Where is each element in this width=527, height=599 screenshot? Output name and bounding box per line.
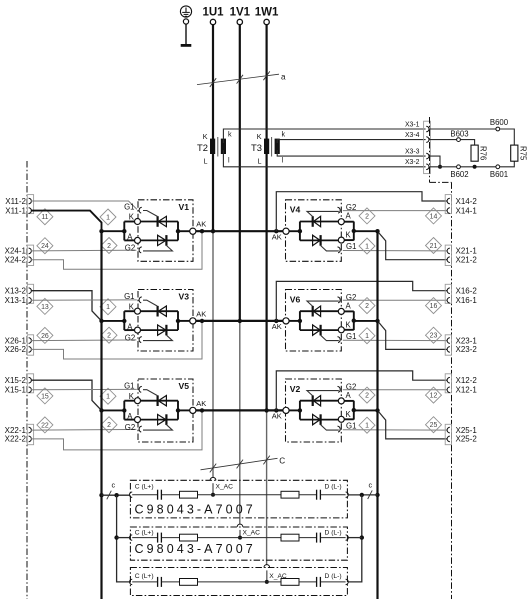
board 3 resistor left: [180, 579, 198, 586]
wire X11-1 to C-bus junction: [31, 211, 102, 232]
snubber board C98043-A7007 #3 outline: [130, 568, 347, 596]
terminal X13-2: [29, 288, 32, 294]
svg-text:1: 1: [106, 214, 110, 221]
svg-text:X25-1: X25-1: [456, 426, 478, 435]
wire tag diamond 2 (left): [101, 327, 117, 343]
V1 thyristor 1 (top, cathode left): [141, 221, 179, 223]
terminal group bracket X12-2/X12-1: [445, 374, 451, 393]
V5 terminal K circle: [135, 398, 141, 404]
junction phase line: [238, 319, 242, 323]
svg-text:24: 24: [41, 243, 49, 250]
V5 AK terminal circle: [190, 407, 196, 413]
svg-text:G1: G1: [124, 382, 134, 391]
wire riser AK node to X14-2: [276, 192, 447, 232]
V5 gate hook G1: [139, 386, 142, 392]
svg-text:25: 25: [430, 422, 438, 429]
svg-text:V6: V6: [290, 294, 301, 304]
svg-text:X24-1: X24-1: [5, 247, 27, 256]
svg-text:1V1: 1V1: [230, 7, 251, 19]
V1 AK terminal circle: [190, 228, 196, 234]
V3 input bar: [123, 311, 125, 330]
svg-text:C (L+): C (L+): [135, 484, 154, 491]
wire tag diamond 1 (left): [100, 388, 116, 404]
board 3 wire: [162, 581, 180, 583]
V5 thyristor 2 (bottom, cathode right): [141, 419, 179, 421]
board 3 D(L-) terminal arc: [346, 579, 349, 584]
terminal X21-2: [447, 257, 450, 263]
svg-text:1: 1: [106, 304, 110, 311]
svg-text:G1: G1: [124, 203, 134, 212]
svg-text:R75: R75: [518, 146, 527, 161]
V2 thyristor 2 (bottom, cathode right): [300, 419, 338, 421]
terminal X3-4: [426, 137, 429, 143]
junction C-bus / module input: [99, 408, 103, 412]
svg-text:A: A: [127, 233, 133, 242]
wire to board 2 C(L+): [117, 537, 130, 539]
terminal group bracket X16-2/X16-1: [445, 284, 451, 303]
V4 input wire: [289, 230, 300, 232]
svg-text:C (L+): C (L+): [135, 530, 154, 537]
svg-text:2: 2: [365, 303, 369, 310]
current transformer T2 secondary winding: [221, 139, 226, 154]
terminal X22-1: [29, 427, 32, 433]
wire X13-2 to C-bus junction: [31, 291, 102, 321]
wire X26-2 return to AK node: [31, 321, 202, 359]
svg-text:12: 12: [430, 393, 438, 400]
V4 gate lead G1: [321, 246, 339, 251]
V3 gate lead G1: [143, 300, 157, 306]
wire D-bus junction return to X23-2: [378, 321, 448, 350]
svg-text:B603: B603: [450, 129, 468, 138]
V4 input bar: [299, 222, 301, 241]
junction riser to terminal: [274, 408, 278, 412]
V3 terminal K circle: [135, 308, 141, 314]
svg-text:A: A: [346, 212, 352, 221]
board 3 wire middle: [198, 581, 282, 583]
V1 gate hook G2: [139, 247, 142, 253]
snubber board C98043-A7007 #1 outline: [130, 480, 347, 518]
svg-text:X15-2: X15-2: [5, 376, 27, 385]
board 2 resistor right: [281, 534, 299, 541]
V2 gate lead G2: [307, 391, 339, 396]
svg-text:X13-1: X13-1: [5, 296, 27, 305]
board boundary dash-dot at X3: [429, 117, 431, 182]
svg-text:B601: B601: [490, 170, 508, 179]
resistor R76: [471, 145, 478, 161]
terminal X3-1: [426, 126, 429, 132]
svg-text:C98043-A7007: C98043-A7007: [135, 502, 256, 516]
terminal group bracket X24-1/X24-2: [27, 245, 33, 265]
svg-text:X12-2: X12-2: [456, 376, 478, 385]
V5 output bar: [177, 401, 179, 420]
C bus junction to board 1: [99, 493, 103, 497]
wire V2 gate G2 to X12-1: [343, 389, 448, 391]
V3 gate hook G2: [139, 337, 142, 343]
V5 input bar: [123, 401, 125, 420]
svg-text:1: 1: [365, 243, 369, 250]
terminal X14-2: [447, 198, 450, 204]
svg-text:11: 11: [41, 214, 48, 221]
ground symbol PE: [180, 6, 191, 17]
svg-text:X11-2: X11-2: [5, 197, 26, 206]
junction return wire: [200, 229, 204, 233]
svg-text:K: K: [129, 213, 135, 222]
V4 output bar: [344, 221, 354, 223]
V1 gate lead G2: [143, 246, 172, 251]
wire tag diamond 2 (right): [359, 298, 375, 314]
snubber board C98043-A7007 #2 outline: [130, 527, 347, 560]
svg-text:X22-1: X22-1: [5, 426, 27, 435]
wire T3 k to X3-4: [277, 140, 425, 143]
svg-text:G1: G1: [346, 332, 356, 341]
wire C-bus to V1 K/A bar: [102, 230, 125, 232]
board 1 resistor left: [180, 491, 198, 498]
V5 gate lead G2: [143, 425, 172, 430]
svg-text:A: A: [127, 322, 133, 331]
svg-text:D (L-): D (L-): [325, 484, 342, 491]
V6 gate lead G2: [307, 301, 339, 306]
terminal X11-2: [29, 198, 32, 204]
svg-text:A: A: [346, 301, 352, 310]
V6 gate hook G1: [338, 337, 341, 343]
svg-text:G2: G2: [125, 333, 135, 342]
junction board 2 left: [114, 535, 118, 539]
terminal X11-1: [29, 208, 32, 214]
board 1 internal wire: [132, 494, 157, 496]
node point B600: [496, 127, 500, 131]
resistor R75: [511, 145, 518, 161]
board 3 C(L+) terminal arc: [129, 579, 132, 584]
terminal group bracket X21-1/X21-2: [445, 245, 451, 265]
V2 gate hook G2: [338, 386, 341, 392]
svg-text:K: K: [346, 231, 352, 240]
board 1 wire middle: [198, 494, 282, 496]
V1 terminal A circle: [135, 237, 141, 243]
AK wire row 1 (phase node): [196, 230, 286, 232]
cable marker c (left): [107, 491, 112, 500]
svg-text:13: 13: [41, 304, 49, 311]
cabinet boundary left dash-dot: [26, 161, 28, 599]
svg-text:22: 22: [41, 422, 49, 429]
board 2 D(L-) terminal arc: [346, 535, 349, 540]
svg-text:X12-1: X12-1: [456, 386, 478, 395]
connector X3 bracket: [424, 121, 431, 173]
wire tag diamond 21: [426, 238, 442, 254]
board 2 X_AC junction: [238, 536, 242, 540]
wire tag diamond 2 (left): [101, 238, 117, 254]
wire tag diamond 1 (right): [359, 238, 375, 254]
wire X3-1 to R75 top (node B600): [430, 129, 515, 145]
junction boards left feeder: [114, 493, 118, 497]
svg-text:G1: G1: [346, 421, 356, 430]
V2 thyristor 1 (top, cathode left): [300, 400, 338, 402]
V4 gate hook G1: [338, 247, 341, 253]
terminal group bracket X22-1/X22-2: [27, 424, 33, 444]
V1 input bar: [123, 222, 125, 241]
V6 terminal K circle: [338, 327, 344, 333]
board 3 internal wire: [132, 581, 157, 583]
board 3 X_AC junction: [265, 580, 269, 584]
junction return wire: [200, 319, 204, 323]
svg-text:V1: V1: [179, 202, 190, 212]
board 2 wire: [299, 537, 316, 539]
terminal X25-2: [447, 436, 450, 442]
T3 core: [271, 137, 273, 157]
V6 AK terminal circle: [283, 318, 289, 324]
wire X24-1 to V1 gate G2: [31, 249, 136, 252]
svg-text:2: 2: [365, 213, 369, 220]
V4 gate hook G2: [338, 207, 341, 213]
terminal X16-2: [447, 288, 450, 294]
V5 gate lead G1: [143, 390, 157, 396]
wire X26-1 to V3 gate G2: [31, 339, 136, 342]
board 1 D(L-) terminal arc: [346, 492, 349, 497]
wire D-bus junction return to X21-2: [378, 231, 448, 260]
wire X3-3 down to X3-2 net: [430, 156, 440, 167]
svg-text:X3-4: X3-4: [405, 132, 420, 139]
wire X22-1 to V5 gate G2: [31, 428, 136, 431]
boards left feeder vertical: [117, 495, 130, 582]
svg-text:X_AC: X_AC: [216, 484, 234, 491]
svg-text:A: A: [346, 391, 352, 400]
ground bar: [181, 44, 192, 47]
terminal X3-2: [426, 164, 429, 170]
svg-text:X14-2: X14-2: [456, 197, 478, 206]
cable marker c (right): [368, 490, 373, 499]
wire V4 to D-bus: [354, 230, 378, 232]
svg-text:2: 2: [107, 243, 111, 250]
V3 terminal A circle: [135, 327, 141, 333]
thyristor module V4 outline box: [286, 200, 342, 261]
svg-text:V2: V2: [290, 384, 301, 394]
wire 1V1 vertical (top to V3 row junction): [239, 25, 241, 321]
svg-text:X21-2: X21-2: [456, 256, 478, 265]
terminal X15-1: [29, 387, 32, 393]
V1 terminal K circle: [135, 219, 141, 225]
V5 thyristor 1 (top, cathode left): [141, 400, 179, 402]
node point B603: [457, 138, 461, 142]
svg-text:X15-1: X15-1: [5, 386, 27, 395]
board 3 capacitor C right: [316, 577, 318, 587]
wire D-bus junction return to X25-2: [378, 410, 448, 439]
svg-text:X3-3: X3-3: [405, 149, 420, 156]
board 3 X_AC entry arc: [264, 565, 270, 568]
svg-text:k: k: [282, 130, 286, 139]
thyristor module V5 outline box: [138, 379, 193, 442]
terminal X12-2: [447, 377, 450, 383]
svg-text:V5: V5: [179, 381, 190, 391]
svg-text:L: L: [258, 157, 262, 166]
wire riser AK node to X16-2: [276, 281, 447, 321]
svg-text:C: C: [279, 457, 285, 466]
wire bottom net B602 B601 to R75 bottom: [430, 161, 515, 167]
V6 input wire: [289, 320, 300, 322]
svg-text:G1: G1: [124, 292, 134, 301]
cable marker a: [197, 71, 286, 87]
wire tag diamond 1 (left): [100, 209, 116, 225]
wire 1W1 vertical (top to V5 row junction): [266, 25, 268, 410]
wire tag diamond 2 (left): [101, 417, 117, 433]
wire 1U1 vertical (top to V1 row junction): [212, 25, 214, 231]
svg-text:AK: AK: [196, 220, 206, 229]
svg-text:AK: AK: [272, 322, 282, 331]
wire X15-2 to C-bus junction: [31, 380, 102, 410]
current transformer T3 primary winding: [264, 139, 269, 154]
V3 output bar: [177, 311, 179, 330]
terminal X23-1: [447, 338, 450, 344]
svg-text:X3-1: X3-1: [405, 121, 420, 128]
board 2 X_AC entry arc: [237, 524, 243, 527]
terminal X23-2: [447, 347, 450, 353]
V4 gate lead G2: [307, 211, 339, 216]
wire V4 gate G2 to X14-1: [343, 210, 448, 212]
V3 thyristor 1 (top, cathode left): [141, 310, 179, 312]
svg-text:V3: V3: [179, 292, 190, 302]
svg-text:R76: R76: [479, 146, 488, 160]
V6 output bar: [344, 310, 354, 312]
svg-text:AK: AK: [272, 412, 282, 421]
wire X3-4 to R76 top (node B603): [430, 140, 475, 146]
svg-text:2: 2: [107, 333, 111, 340]
svg-text:X23-2: X23-2: [456, 345, 478, 354]
svg-text:B602: B602: [450, 170, 468, 179]
V2 terminal A circle: [338, 398, 344, 404]
wire to board 2 D(L-): [348, 537, 362, 539]
T2 core: [217, 137, 219, 157]
terminal group bracket X23-1/X23-2: [445, 335, 451, 355]
wire V6 gate G2 to X16-1: [343, 299, 448, 301]
junction R76 bottom: [473, 165, 477, 169]
current transformer T3 secondary winding: [275, 139, 280, 154]
wire tag diamond 24: [37, 238, 53, 254]
terminal X26-1: [29, 338, 32, 344]
svg-text:2: 2: [365, 393, 369, 400]
board 1 resistor right: [281, 491, 299, 498]
AK wire row 2 (phase node): [196, 320, 286, 322]
board 2 resistor left: [180, 534, 198, 541]
V5 terminal A circle: [135, 417, 141, 423]
board 1 capacitor C left: [157, 490, 159, 500]
V2 gate hook G1: [338, 426, 341, 432]
svg-text:G2: G2: [125, 423, 135, 432]
junction D-bus: [375, 229, 379, 233]
wire tag diamond 1 (right): [359, 328, 375, 344]
terminal X26-2: [29, 347, 32, 353]
svg-text:2: 2: [107, 422, 111, 429]
svg-text:1W1: 1W1: [255, 7, 279, 19]
wire V4 gate G1 to X21-1: [343, 250, 448, 252]
svg-text:D (L-): D (L-): [325, 573, 342, 580]
V2 output bar: [344, 400, 354, 402]
V3 AK terminal circle: [190, 318, 196, 324]
svg-text:K: K: [203, 132, 208, 141]
board 1 wire: [162, 494, 180, 496]
svg-text:X23-1: X23-1: [456, 336, 478, 345]
junction phase line: [211, 229, 215, 233]
svg-text:X_AC: X_AC: [243, 530, 261, 537]
svg-text:1: 1: [365, 333, 369, 340]
board 3 resistor right: [281, 579, 299, 586]
junction C-bus / module input: [99, 229, 103, 233]
svg-text:T2: T2: [197, 142, 208, 153]
D bus junction to board 1: [375, 493, 379, 497]
wire tag diamond 13: [37, 298, 53, 314]
svg-text:K: K: [129, 392, 135, 401]
wire C-bus to V5 K/A bar: [102, 409, 125, 411]
board 2 wire middle: [198, 537, 282, 539]
board 1 wire: [321, 494, 346, 496]
wire tag diamond 14: [426, 208, 442, 224]
V6 terminal A circle: [338, 308, 344, 314]
terminal group bracket X14-2/X14-1: [445, 195, 451, 214]
terminal X24-1: [29, 248, 32, 254]
V2 gate lead G1: [321, 425, 339, 430]
terminal group bracket X25-1/X25-2: [445, 424, 451, 444]
board 1 X_AC junction: [211, 493, 215, 497]
boards right feeder vertical: [348, 495, 362, 582]
board 1 C(L+) terminal arc: [129, 492, 132, 497]
wire tag diamond 15: [37, 388, 53, 404]
svg-text:L: L: [204, 157, 208, 166]
cabinet boundary right dash-dot: [451, 182, 453, 599]
svg-text:V4: V4: [290, 205, 301, 215]
thyristor module V3 outline box: [138, 290, 193, 352]
junction riser to terminal: [274, 229, 278, 233]
junction boards right feeder: [360, 493, 364, 497]
junction riser to terminal: [274, 319, 278, 323]
wire tag diamond 11: [37, 209, 53, 225]
terminal X21-1: [447, 248, 450, 254]
svg-text:X24-2: X24-2: [5, 256, 27, 265]
wire 1W1 lower (to snubber board 3 X_AC): [266, 410, 268, 565]
svg-text:A: A: [127, 412, 133, 421]
terminal X13-1: [29, 298, 32, 304]
terminal X24-2: [29, 257, 32, 263]
svg-text:14: 14: [430, 213, 438, 220]
svg-text:X11-1: X11-1: [5, 206, 26, 215]
wire D bus to boards right: [348, 494, 377, 496]
svg-text:1: 1: [365, 423, 369, 430]
wire C-bus to V3 K/A bar: [102, 320, 125, 322]
terminal group bracket X15-2/X15-1: [27, 374, 33, 393]
wire tag diamond 12: [426, 387, 442, 403]
board 1 wire: [299, 494, 316, 496]
wire T2 l to X3-2: [223, 150, 425, 167]
wire tag diamond 2 (right): [359, 387, 375, 403]
V1 gate hook G1: [139, 207, 142, 213]
V6 gate hook G2: [338, 297, 341, 303]
V2 AK terminal circle: [283, 407, 289, 413]
svg-text:D (L-): D (L-): [325, 530, 342, 537]
board 2 capacitor C right: [316, 533, 318, 543]
svg-text:21: 21: [430, 243, 438, 250]
junction D-bus: [375, 408, 379, 412]
terminal X3-3: [426, 153, 429, 159]
terminal X16-1: [447, 298, 450, 304]
ground terminal circle: [183, 19, 188, 24]
svg-text:X16-2: X16-2: [456, 287, 478, 296]
terminal group bracket X13-2/X13-1: [27, 284, 33, 303]
V3 gate hook G1: [139, 297, 142, 303]
terminal X22-2: [29, 436, 32, 442]
wire X15-1 to V5 gate G1: [31, 388, 137, 390]
board 3 capacitor C left: [157, 577, 159, 587]
junction phase line: [264, 408, 268, 412]
V1 output bar: [177, 222, 179, 241]
board 3 wire: [299, 581, 316, 583]
svg-text:X3-2: X3-2: [405, 159, 420, 166]
current transformer T2 primary winding: [210, 139, 215, 154]
